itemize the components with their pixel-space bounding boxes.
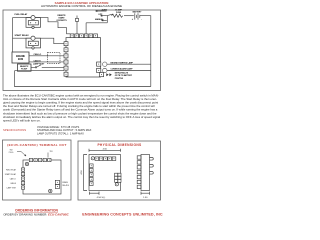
svg-text:ECM: ECM: [18, 59, 23, 61]
svg-text:(ECU5-CAN70BC) TERMINAL OUT: (ECU5-CAN70BC) TERMINAL OUT: [7, 143, 67, 147]
svg-text:POSITIVE: POSITIVE: [115, 78, 124, 80]
svg-text:ORDER BY DRAWING NUMBER: ECU-C: ORDER BY DRAWING NUMBER: ECU-CAN70BC: [3, 213, 69, 217]
svg-text:FUEL RELAY: FUEL RELAY: [6, 168, 17, 171]
svg-text:SPARE: SPARE: [62, 181, 68, 184]
svg-text:PICKUP: PICKUP: [21, 68, 28, 70]
svg-text:OR TB TO BATTERY: OR TB TO BATTERY: [115, 74, 133, 77]
svg-text:AUTOMATIC ENGINE CONTROL OF DI: AUTOMATIC ENGINE CONTROL OF DIESEL/GAS E…: [41, 4, 122, 8]
svg-text:PHYSICAL DIMENSIONS: PHYSICAL DIMENSIONS: [97, 143, 142, 147]
svg-text:VOLTAGE RANGE : 8 TO 28 VOLTS: VOLTAGE RANGE : 8 TO 28 VOLTS: [37, 125, 80, 129]
svg-text:MANUAL: MANUAL: [95, 18, 104, 21]
svg-text:ENGINE STARTED LAMP: ENGINE STARTED LAMP: [111, 61, 134, 64]
svg-text:CAN HI: CAN HI: [10, 182, 16, 185]
svg-text:LAMP TEST: LAMP TEST: [7, 186, 16, 189]
svg-text:1.50: 1.50: [143, 197, 148, 199]
svg-text:TB1: TB1: [49, 151, 52, 153]
svg-text:ENGINE: ENGINE: [16, 56, 25, 58]
svg-text:4.50: 4.50: [81, 170, 83, 175]
svg-text:FUSE: FUSE: [116, 12, 122, 14]
svg-text:4.50 SQ.: 4.50 SQ.: [97, 197, 106, 199]
svg-text:START RELAY: START RELAY: [5, 173, 17, 176]
svg-text:SPECIFICATIONS: SPECIFICATIONS: [3, 128, 26, 132]
svg-text:MAGNETIC: MAGNETIC: [20, 65, 29, 68]
svg-text:CAN HI: CAN HI: [34, 59, 41, 62]
svg-text:PLUG: PLUG: [9, 152, 14, 154]
svg-text:LAMP TEST: LAMP TEST: [33, 63, 45, 66]
svg-text:START RELAY: START RELAY: [15, 34, 30, 37]
svg-text:BATTERY: BATTERY: [133, 10, 142, 13]
svg-text:COMMON ALARM LAMP: COMMON ALARM LAMP: [111, 68, 134, 71]
svg-text:CAN LO: CAN LO: [10, 177, 17, 180]
svg-text:STARTER AND FUEL OUTPUT : 5 AM: STARTER AND FUEL OUTPUT : 5 AMPS MAX: [37, 128, 92, 132]
svg-text:+: +: [132, 18, 134, 21]
svg-text:ENGINEERING CONCEPTS UNLIMITED: ENGINEERING CONCEPTS UNLIMITED, INC.: [82, 213, 163, 217]
svg-text:AUTO: AUTO: [102, 8, 108, 11]
svg-text:CAN LO: CAN LO: [34, 53, 42, 56]
svg-text:CONTACTS: CONTACTS: [56, 19, 67, 22]
svg-text:LAMP OUTPUTS (TOTAL) : 1 AMP M: LAMP OUTPUTS (TOTAL) : 1 AMP MAX: [37, 132, 84, 136]
svg-text:RELAYS: RELAYS: [62, 184, 69, 187]
svg-text:speed LED's will both turn on.: speed LED's will both turn on.: [3, 119, 41, 123]
svg-text:EXTRA FAULTS: EXTRA FAULTS: [115, 71, 129, 74]
svg-text:-: -: [141, 18, 142, 21]
svg-text:FUEL RELAY: FUEL RELAY: [15, 13, 28, 16]
